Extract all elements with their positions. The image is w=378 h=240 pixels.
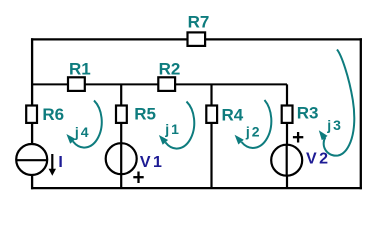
mesh current j1 — [159, 102, 194, 149]
resistor R6 — [26, 105, 64, 124]
resistor R4 — [206, 106, 243, 125]
wire right vertical — [360, 38, 362, 189]
svg-text:R6: R6 — [42, 105, 64, 124]
mesh current j4 — [66, 101, 101, 148]
svg-text:R5: R5 — [134, 104, 156, 123]
mesh current j2 — [235, 100, 272, 148]
wire column B vertical — [120, 84, 122, 188]
svg-text:R7: R7 — [188, 12, 210, 31]
svg-text:j1: j1 — [164, 121, 181, 137]
svg-text:j4: j4 — [74, 124, 91, 140]
wire left vertical — [31, 38, 33, 189]
wire column C vertical — [210, 84, 212, 188]
voltage source V2 — [271, 132, 330, 176]
resistor R5 — [116, 104, 156, 123]
wire bottom horizontal — [31, 187, 362, 189]
resistor R3 — [282, 104, 319, 123]
svg-text:R3: R3 — [297, 104, 319, 123]
svg-text:R1: R1 — [69, 60, 91, 79]
svg-text:R4: R4 — [222, 106, 244, 125]
resistor R1 — [68, 60, 91, 91]
wire column D vertical — [286, 84, 288, 188]
svg-text:V1: V1 — [140, 154, 164, 171]
resistor R7 — [188, 12, 210, 46]
svg-text:I: I — [58, 154, 65, 171]
svg-text:R2: R2 — [159, 60, 181, 79]
svg-text:j2: j2 — [245, 124, 262, 140]
svg-text:j3: j3 — [326, 117, 343, 133]
voltage source V1 — [106, 143, 165, 183]
mesh current j3 — [319, 50, 354, 156]
resistor R2 — [158, 60, 180, 91]
current source I — [16, 144, 65, 176]
wire middle horizontal — [32, 83, 287, 85]
svg-text:V2: V2 — [306, 151, 330, 168]
wire top horizontal — [31, 38, 362, 40]
